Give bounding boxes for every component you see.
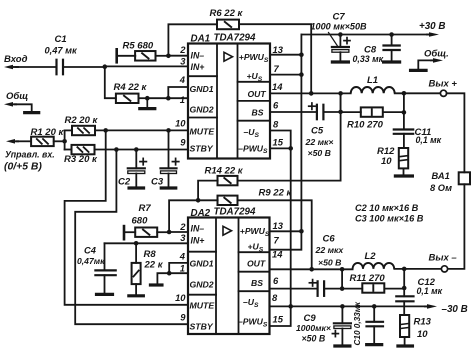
wire STBY branch to DA2 pin9 [75, 150, 188, 325]
wire C2 to ground [135, 174, 137, 187]
ground C8 [384, 60, 400, 63]
svg-text:1: 1 [180, 262, 185, 273]
svg-text:С2 10 мк×16 В: С2 10 мк×16 В [355, 203, 419, 213]
svg-text:15: 15 [273, 313, 284, 324]
svg-text:3: 3 [180, 232, 186, 243]
node pin13 bus [299, 52, 304, 57]
node DA2 OUT node top [340, 267, 345, 272]
label C4 [77, 245, 105, 266]
svg-text:GND2: GND2 [190, 279, 214, 289]
label L1 [367, 75, 378, 86]
DA2 pin label STBY [190, 322, 214, 332]
DA2 pin label OUT [247, 258, 266, 268]
resistor R8 [132, 263, 141, 284]
node C8 rail [389, 32, 394, 37]
wire R9 to DA2 OUT row [238, 200, 312, 269]
wire +30V rail [301, 34, 432, 36]
wire R1 to split node [54, 140, 65, 142]
svg-text:1000мк×: 1000мк× [296, 323, 331, 333]
power arrow +30V [427, 32, 439, 37]
DA1 pin label OUT [248, 89, 267, 99]
wire input to C1 [16, 66, 57, 68]
label R10 [347, 120, 384, 131]
DA1 pin label +Us [247, 71, 263, 83]
svg-text:0,33 мк: 0,33 мк [353, 54, 384, 64]
label R8 [144, 249, 164, 270]
svg-text:10: 10 [381, 156, 392, 167]
wire R14 left leg [198, 181, 218, 201]
label -30V [442, 304, 468, 315]
wire C1 to IN+ node [63, 66, 105, 68]
ground terminal Общ top-left [4, 102, 39, 113]
DA2 pin label IN- [191, 224, 205, 234]
svg-text:L1: L1 [367, 75, 378, 86]
node pin15 bus [288, 146, 293, 151]
DA1 pin label -Us [244, 127, 260, 139]
label C2 [118, 176, 131, 187]
ground C3 [161, 186, 176, 189]
svg-text:GND1: GND1 [190, 84, 214, 94]
wire R14 to DA1 OUT node [238, 93, 341, 180]
svg-text:8 Ом: 8 Ом [430, 183, 452, 193]
wire C3 from MUTE row [168, 130, 170, 168]
wire +Us bus vertical [270, 35, 302, 250]
polarity plus C7 [344, 38, 350, 44]
node DA1 ground junction [145, 96, 150, 101]
node STBY branch [114, 147, 119, 152]
node -bus to -30V rail [288, 304, 293, 309]
wire L1 to output terminal [395, 92, 441, 94]
wire MUTE branch to DA2 pin10 [65, 130, 188, 304]
wire C10 to ground [373, 326, 375, 343]
svg-text:0,1 мк: 0,1 мк [416, 135, 442, 145]
label C6 [315, 233, 345, 267]
DA2 pin number 2 [179, 221, 186, 232]
svg-text:R9 22 к: R9 22 к [259, 187, 293, 198]
wire DA2 OUT node drop [341, 269, 343, 288]
label C5 [305, 126, 334, 159]
svg-text:Общ: Общ [6, 91, 28, 102]
wire Zobel drop DA2 [403, 269, 405, 296]
op-amp U1 DA1 TDA7294 chip body [188, 44, 270, 159]
svg-text:TDA7294: TDA7294 [214, 32, 256, 43]
label C10 [353, 301, 362, 345]
svg-text:22 мкх: 22 мкх [315, 245, 345, 255]
DA2 pin number 13 [273, 220, 284, 231]
svg-text:R3 20 к: R3 20 к [64, 154, 98, 165]
stub bar R5 left [115, 49, 118, 62]
wire stub to R7 [124, 231, 135, 233]
label R6 [210, 8, 244, 19]
capacitor C9 [334, 323, 351, 328]
resistor R10 [361, 107, 383, 116]
DA1 pin number 8 [273, 119, 279, 130]
wire R8 drop [135, 243, 137, 263]
svg-text:C4: C4 [84, 245, 97, 255]
node C3 tap on MUTE row [166, 128, 171, 133]
svg-text:15: 15 [273, 137, 284, 148]
DA1 pin label IN+ [191, 62, 205, 72]
wire DA1 pin13 to bus [270, 54, 301, 56]
wire arrow to R1 [17, 140, 31, 142]
wire DA2 pin1 row [169, 272, 188, 274]
node R10 right [402, 110, 407, 115]
svg-text:Вых –: Вых – [429, 252, 458, 263]
wire C5 to OUT node [323, 111, 340, 113]
svg-text:OUT: OUT [247, 258, 266, 268]
DA2 pin number 4 [179, 251, 186, 262]
node R8 tap [134, 241, 139, 246]
svg-text:Управл. вх.: Управл. вх. [5, 149, 55, 159]
DA1 pin number 13 [273, 44, 284, 55]
svg-text:8: 8 [272, 292, 278, 303]
label R5 [123, 40, 154, 51]
op-amp U2 DA2 TDA7294 chip body [188, 218, 270, 335]
wire C11 to R12 [403, 134, 405, 148]
wire OUT node drop [340, 93, 342, 112]
wire split riser [64, 130, 66, 149]
label Управл вх [5, 149, 55, 159]
wire Zobel drop DA1 [403, 93, 405, 129]
capacitor C5 [317, 105, 324, 120]
capacitor C4 [95, 270, 115, 275]
label C8 [353, 44, 384, 64]
svg-text:C2: C2 [118, 176, 131, 187]
svg-text:10: 10 [175, 292, 186, 303]
ground R13 [398, 344, 413, 347]
wire R8 to ground [135, 284, 137, 295]
resistor R1 [31, 137, 54, 146]
DA1 pin number 15 [273, 137, 284, 148]
svg-text:R2 20 к: R2 20 к [65, 115, 99, 126]
wire R6 to DA1 OUT node [239, 24, 311, 93]
DA1 pin number 1 [180, 94, 185, 105]
svg-text:Общ.: Общ. [424, 49, 449, 60]
capacitor C7 stem [339, 35, 341, 48]
svg-text:13: 13 [273, 44, 284, 55]
svg-text:6: 6 [273, 100, 279, 111]
DA1 pin label MUTE [190, 126, 216, 136]
label R13 [414, 317, 432, 341]
polarity plus C6 [309, 280, 315, 286]
node DA2 pin1 tie [167, 271, 172, 276]
wire C9 to ground [341, 329, 343, 345]
DA1 pin number 10 [175, 117, 186, 128]
node R11 right [402, 286, 407, 291]
wire DA2 OUT row [270, 268, 353, 270]
node L2 R11 right [402, 267, 407, 272]
label BA1 [430, 171, 452, 193]
speaker BA1 [459, 172, 470, 184]
resistor R6 [217, 20, 239, 30]
DA2 pin label GND1 [190, 258, 214, 268]
label Вых+ [429, 78, 458, 89]
svg-text:6: 6 [273, 275, 279, 286]
capacitor C8 stem [391, 35, 393, 46]
svg-text:680: 680 [132, 215, 149, 226]
svg-text:(0/+5 В): (0/+5 В) [4, 162, 42, 173]
svg-text:IN+: IN+ [191, 236, 205, 246]
label C1 [45, 34, 79, 55]
wire -Us bus vertical [290, 148, 292, 306]
DA2 pin number 1 [180, 262, 185, 273]
wire R10 row [341, 111, 404, 113]
wire DA2 pin4 to pin1 tie [169, 263, 188, 273]
capacitor C6 [318, 281, 325, 296]
polarity plus C9 [332, 331, 338, 337]
wire pin2 node to DA1 pin2 [168, 55, 188, 57]
DA1 pin number 6 [273, 100, 279, 111]
resistor R12 [399, 148, 408, 168]
DA2 pin number 9 [180, 311, 186, 322]
node pin4 tie [166, 96, 171, 101]
svg-text:STBY: STBY [190, 144, 214, 154]
capacitor C8 [384, 46, 400, 51]
ground C7 [332, 60, 348, 63]
svg-text:–30 В: –30 В [442, 304, 468, 315]
svg-text:×50 В: ×50 В [318, 257, 341, 267]
ground C2 [129, 186, 144, 189]
op-amp U1 DA1 title label [191, 32, 256, 44]
svg-text:9: 9 [180, 311, 186, 322]
svg-text:R7: R7 [139, 203, 152, 214]
wire R13 to ground [404, 337, 406, 345]
capacitor C9 stem [341, 306, 343, 323]
note C2 C3 values [355, 203, 424, 224]
svg-text:7: 7 [274, 235, 280, 246]
terminal Вых+ circle [440, 90, 446, 96]
ground C4 [97, 293, 113, 296]
capacitor C10 stem [373, 306, 375, 321]
DA2 pin label BS [251, 278, 263, 288]
node C5 OUT [338, 110, 343, 115]
wire STBY row R3 to DA1 pin9 [95, 149, 189, 151]
wire C3 to ground [168, 174, 170, 187]
wire C4 to ground [104, 275, 106, 293]
wire R5 to pin2 node [156, 55, 169, 57]
wire DA2 IN+ row [105, 242, 189, 244]
wire R9 from junction [198, 199, 218, 201]
DA2 pin number 6 [273, 275, 279, 286]
svg-text:0,1 мк: 0,1 мк [417, 286, 443, 296]
node DA2 pin13 bus [299, 229, 304, 234]
DA2 pin number 3 [180, 232, 186, 243]
wire output to speaker [447, 93, 465, 172]
resistor R13 [400, 315, 409, 337]
label C11 [415, 127, 442, 145]
wire C2 from STBY row [135, 150, 137, 169]
node R14 R9 junction [196, 198, 201, 203]
wire DA2 feedback link [169, 200, 198, 232]
node C6 OUT [340, 286, 345, 291]
node R6 to OUT row [309, 91, 314, 96]
svg-text:Вход: Вход [4, 54, 28, 65]
DA1 pin number 7 [274, 63, 280, 74]
DA1 pin label -PWUs [238, 143, 268, 155]
wire -30V rail [271, 305, 431, 307]
svg-text:IN+: IN+ [191, 62, 205, 72]
resistor R14 [218, 176, 238, 185]
label L2 [365, 251, 377, 262]
DA1 pin label +PWUs [239, 52, 269, 64]
DA2 pin label GND2 [190, 279, 214, 289]
label C3 [151, 176, 164, 187]
svg-text:R14 22 к: R14 22 к [205, 165, 244, 176]
wire DA1 OUT row [270, 92, 351, 94]
svg-text:GND2: GND2 [190, 104, 214, 114]
label R3 [64, 154, 98, 165]
svg-text:BS: BS [251, 278, 263, 288]
input terminal Вход arrow [4, 65, 18, 70]
svg-text:R5 680: R5 680 [123, 40, 154, 51]
svg-text:STBY: STBY [190, 322, 214, 332]
svg-text:ВА1: ВА1 [432, 171, 450, 181]
svg-text:+30 В: +30 В [419, 21, 445, 32]
svg-text:R6 22 к: R6 22 к [210, 8, 244, 19]
DA1 pin label IN- [191, 51, 205, 61]
label R9 [259, 187, 293, 198]
wire split to R3 [65, 149, 72, 151]
svg-text:IN–: IN– [191, 224, 205, 234]
label Вход [4, 54, 28, 65]
svg-text:R4 22 к: R4 22 к [114, 82, 148, 93]
ground C10 [367, 343, 382, 346]
DA2 pin number 15 [273, 313, 284, 324]
wire MUTE row R2 to DA1 pin10 [95, 129, 188, 131]
wire C12 to R13 [403, 301, 405, 315]
DA2 pin number 14 [272, 249, 283, 260]
svg-text:R1 20 к: R1 20 к [31, 127, 65, 138]
label R12 [377, 146, 395, 167]
label R1 [31, 127, 65, 138]
capacitor C11 [394, 130, 413, 134]
wire C4 drop [104, 243, 106, 270]
node C7 rail [338, 32, 343, 37]
wire split to R2 [65, 129, 72, 131]
DA1 pin number 4 [179, 74, 186, 85]
svg-text:MUTE: MUTE [190, 126, 216, 136]
wire R7 to DA2 pin2 node [157, 231, 169, 233]
svg-text:С10 0,33мк: С10 0,33мк [353, 301, 362, 345]
svg-text:L2: L2 [365, 251, 377, 262]
capacitor C3 [161, 168, 177, 173]
DA2 pin label +PWUs [240, 226, 270, 238]
polarity plus C5 [309, 103, 315, 109]
wire DA1 pin4 to ground node [168, 87, 188, 98]
wire R11 row [342, 288, 404, 290]
node control split [62, 139, 67, 144]
ground C9 [335, 344, 350, 347]
polarity plus C2 [140, 158, 146, 164]
svg-text:1000 мк×50В: 1000 мк×50В [311, 21, 368, 31]
svg-text:DA2: DA2 [191, 208, 211, 219]
wire DA2 pin13 to bus [270, 230, 302, 232]
resistor R2 [72, 126, 95, 135]
svg-text:7: 7 [274, 63, 280, 74]
stub bar R7 left [123, 226, 126, 239]
node OUT node top [338, 91, 343, 96]
DA2 pin label -Us [243, 297, 259, 309]
capacitor C12 [396, 296, 413, 301]
node C2 tap on STBY row [134, 147, 139, 152]
svg-text:×50 В: ×50 В [302, 333, 326, 343]
svg-text:×50 В: ×50 В [308, 148, 331, 158]
svg-text:R8: R8 [144, 249, 157, 260]
capacitor C7 [332, 47, 349, 52]
wire IN+ row to DA1 pin3 [105, 65, 188, 67]
wire L2 to output terminal [394, 268, 441, 270]
DA2 pin number 8 [272, 292, 278, 303]
wire stub to R5 [117, 55, 136, 57]
wire C7 to ground [339, 52, 341, 61]
svg-text:C3: C3 [151, 176, 164, 187]
wire R12 to ground [403, 168, 405, 174]
capacitor C10 [367, 322, 384, 327]
svg-text:DA1: DA1 [191, 34, 211, 45]
polarity plus C3 [172, 158, 178, 164]
wire input node down to R4 [105, 67, 116, 99]
wire C8 to ground [391, 50, 393, 61]
svg-text:22 к: 22 к [144, 260, 164, 271]
svg-text:3: 3 [180, 56, 186, 67]
op-amp U2 DA2 title label [191, 207, 256, 219]
label R11 [350, 273, 386, 284]
wire C6 to OUT node [324, 288, 342, 290]
wire DA1 BS row [270, 111, 317, 113]
label Общ top-right [424, 49, 449, 60]
svg-text:MUTE: MUTE [190, 301, 216, 311]
op-amp U2 DA2 triangle symbol [223, 226, 232, 235]
resistor R5 [135, 51, 155, 61]
label R7 [132, 203, 152, 226]
leader line C7 [329, 33, 338, 47]
svg-text:10: 10 [417, 329, 428, 340]
wire speaker to Вых- [448, 184, 465, 269]
svg-text:С3 100 мк×16 В: С3 100 мк×16 В [355, 214, 424, 224]
DA2 pin label IN+ [191, 236, 205, 246]
DA1 pin label STBY [190, 144, 214, 154]
svg-text:10: 10 [175, 117, 186, 128]
terminal Вых- circle [441, 266, 447, 272]
svg-text:C5: C5 [311, 126, 324, 137]
label 0/+5В [4, 162, 42, 173]
node DA1 IN- junction [166, 54, 171, 59]
node L1 R10 right [402, 91, 407, 96]
wire DA1 pin8 to -bus [270, 131, 291, 149]
svg-text:R10 270: R10 270 [347, 120, 384, 131]
DA2 pin number 10 [175, 292, 186, 303]
DA2 pin number 7 [274, 235, 280, 246]
DA2 pin label -PWUs [238, 317, 268, 329]
label R14 [205, 165, 244, 176]
resistor R4 [116, 94, 139, 103]
svg-text:13: 13 [273, 220, 284, 231]
svg-text:8: 8 [273, 119, 279, 130]
svg-text:14: 14 [272, 81, 283, 92]
wire DA2 BS row [270, 288, 318, 290]
svg-text:TDA7294: TDA7294 [214, 207, 256, 218]
DA2 pin label MUTE [190, 301, 216, 311]
control terminal Управл arrow [6, 139, 18, 144]
svg-text:2: 2 [179, 221, 186, 232]
op-amp U1 DA1 triangle symbol [224, 52, 233, 61]
power arrow -30V [425, 304, 437, 309]
label R4 [114, 82, 148, 93]
DA1 pin number 2 [179, 44, 186, 55]
wire DA2 pin15 riser [271, 306, 291, 326]
wire DA1 pin15 to -bus [270, 147, 291, 149]
node C9 rail [340, 304, 345, 309]
